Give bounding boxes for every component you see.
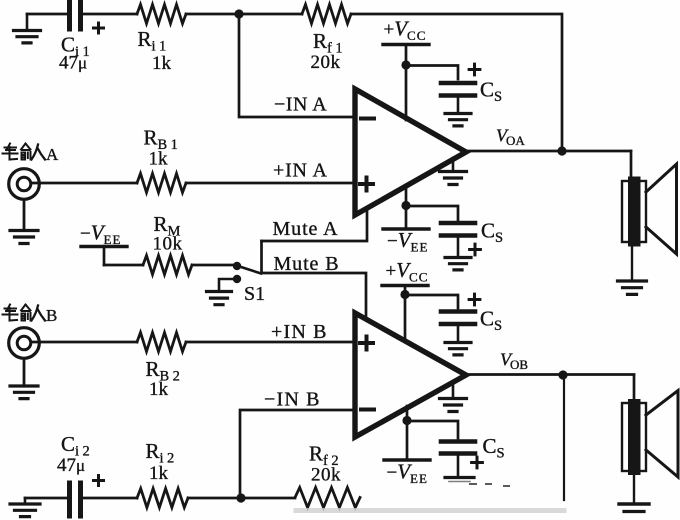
- svg-text:+IN A: +IN A: [273, 160, 328, 182]
- svg-text:−IN B: −IN B: [264, 389, 321, 411]
- wire Mute A: [262, 208, 368, 241]
- net label -IN A: [274, 94, 327, 116]
- svg-text:B: B: [46, 306, 57, 325]
- ground (op-amp B gnd pin): [440, 382, 467, 412]
- svg-text:20k: 20k: [311, 52, 341, 73]
- svg-text:1k: 1k: [149, 379, 169, 400]
- wire Ci2 to Ri2: [83, 497, 137, 500]
- node output A junction: [557, 146, 566, 155]
- svg-text:1k: 1k: [149, 463, 169, 484]
- wire -VEE to Cs4: [407, 421, 458, 438]
- net label VOA: [496, 126, 525, 149]
- wire output VOB: [466, 373, 634, 376]
- speaker LS-B: [622, 391, 678, 478]
- svg-text:S1: S1: [244, 283, 265, 305]
- supply -VEE (op-amp A): [383, 187, 429, 255]
- capacitor Cs (VCC B bypass): [441, 294, 506, 355]
- svg-text:A: A: [46, 145, 59, 164]
- resistor Ri2 1k: [137, 439, 188, 508]
- switch S1 label: [244, 283, 265, 305]
- svg-text:+IN B: +IN B: [271, 321, 328, 343]
- connector input B (RCA jack): [9, 328, 40, 359]
- wire RB1 to op-amp +IN A: [186, 182, 355, 185]
- ground (input cap Ci1 return): [14, 14, 41, 43]
- svg-text:1k: 1k: [149, 149, 169, 170]
- wire input B to RB2: [31, 341, 137, 344]
- wire -VEE to RM: [104, 264, 143, 267]
- node output B junction: [558, 370, 567, 379]
- wire input A to RB1: [31, 182, 137, 185]
- ground (input A): [10, 200, 38, 244]
- wire Mute B: [262, 273, 367, 320]
- net label +IN B: [271, 321, 328, 343]
- svg-text:OB: OB: [510, 357, 528, 372]
- supply -VEE (mute pull): [80, 221, 127, 266]
- capacitor Cs (VEE A bypass): [441, 219, 507, 270]
- svg-text:10k: 10k: [153, 234, 183, 255]
- net label input A (Chinese shu-ru A): [3, 144, 60, 165]
- svg-text:Mute A: Mute A: [273, 218, 339, 240]
- capacitor Cs (VCC A bypass): [441, 64, 506, 126]
- wire +VCC to Cs1: [406, 66, 458, 80]
- resistor RB1 1k: [137, 126, 186, 193]
- svg-text:47μ: 47μ: [59, 53, 87, 74]
- ground (input cap Ci2 return): [10, 498, 40, 517]
- svg-text:OA: OA: [506, 133, 525, 148]
- resistor Ri1 1k: [137, 5, 186, 75]
- wire ground to Ci2: [25, 497, 66, 500]
- wire -IN B: [240, 410, 355, 499]
- wire +VCC to Cs3: [405, 295, 458, 308]
- ground (speaker B): [619, 475, 649, 512]
- ground (speaker A): [618, 247, 647, 295]
- capacitor Ci1 47u: [59, 2, 104, 74]
- op-amp U1 (channel A): [355, 89, 466, 215]
- wire RM to switch pole: [192, 264, 234, 267]
- wire output A to speaker: [630, 151, 633, 178]
- switch S1 pole node: [233, 262, 241, 270]
- svg-text:1k: 1k: [152, 53, 172, 74]
- ground (input B): [10, 359, 38, 399]
- svg-text:47μ: 47μ: [57, 455, 85, 476]
- wire Ri2 to Rf2: [188, 497, 295, 500]
- net label input B (Chinese shu-ru B): [3, 305, 58, 326]
- supply +VCC (op-amp A): [383, 17, 429, 121]
- supply +VCC (op-amp B): [382, 258, 428, 341]
- net label -IN B: [264, 389, 321, 411]
- speaker LS-A: [622, 164, 677, 254]
- capacitor Ci2 47u: [57, 432, 104, 516]
- switch S1 ground contact: [207, 275, 242, 305]
- wire feedback B down: [563, 375, 565, 500]
- wire output VOA: [466, 150, 631, 153]
- node junction Ri1/Rf1/-INA: [234, 9, 243, 18]
- wire Rf1 to output node (feedback): [351, 14, 562, 151]
- net label Mute A: [273, 218, 339, 240]
- net label +IN A: [273, 160, 328, 182]
- svg-text:20k: 20k: [311, 465, 341, 486]
- wire Rf2 to output node B (faded remnant): [296, 484, 564, 511]
- wire Ci1 to Ri1: [83, 13, 137, 16]
- capacitor Cs (VEE B bypass): [441, 434, 508, 482]
- ground (op-amp A gnd pin): [440, 158, 467, 185]
- wire output B to speaker: [633, 375, 636, 401]
- op-amp U2 (channel B): [355, 313, 466, 437]
- wire mute bus vertical: [260, 241, 263, 273]
- wire Ri1 to Rf1: [186, 13, 302, 16]
- wire RB2 to op-amp +IN B: [186, 341, 355, 344]
- wire ground to Ci1: [27, 13, 66, 16]
- wire -IN A: [239, 14, 355, 117]
- supply -VEE (op-amp B): [384, 406, 430, 486]
- switch S1 lever: [238, 266, 261, 274]
- resistor Rf2 20k: [295, 442, 360, 508]
- resistor Rf1 20k: [302, 5, 351, 74]
- node junction Ri2/Rf2/-INB: [236, 493, 245, 502]
- resistor RM 10k: [143, 212, 192, 275]
- resistor RB2 1k: [137, 333, 186, 401]
- svg-text:Mute B: Mute B: [274, 253, 340, 275]
- svg-text:−IN A: −IN A: [274, 94, 327, 116]
- wire -VEE to Cs2: [406, 206, 458, 220]
- net label Mute B: [274, 253, 340, 275]
- connector input A (RCA jack): [9, 169, 40, 200]
- net label VOB: [500, 350, 528, 373]
